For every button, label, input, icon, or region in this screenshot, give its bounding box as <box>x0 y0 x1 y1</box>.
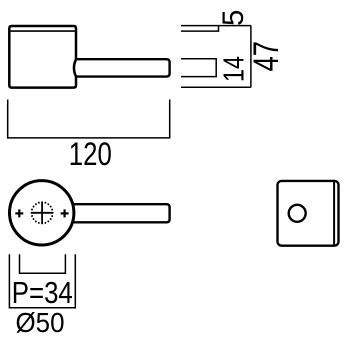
svg-text:P=34: P=34 <box>12 276 73 310</box>
svg-text:14: 14 <box>219 56 251 82</box>
svg-text:Ø50: Ø50 <box>16 307 65 338</box>
svg-text:47: 47 <box>247 41 286 71</box>
svg-text:5: 5 <box>217 10 250 26</box>
svg-text:120: 120 <box>69 136 112 172</box>
